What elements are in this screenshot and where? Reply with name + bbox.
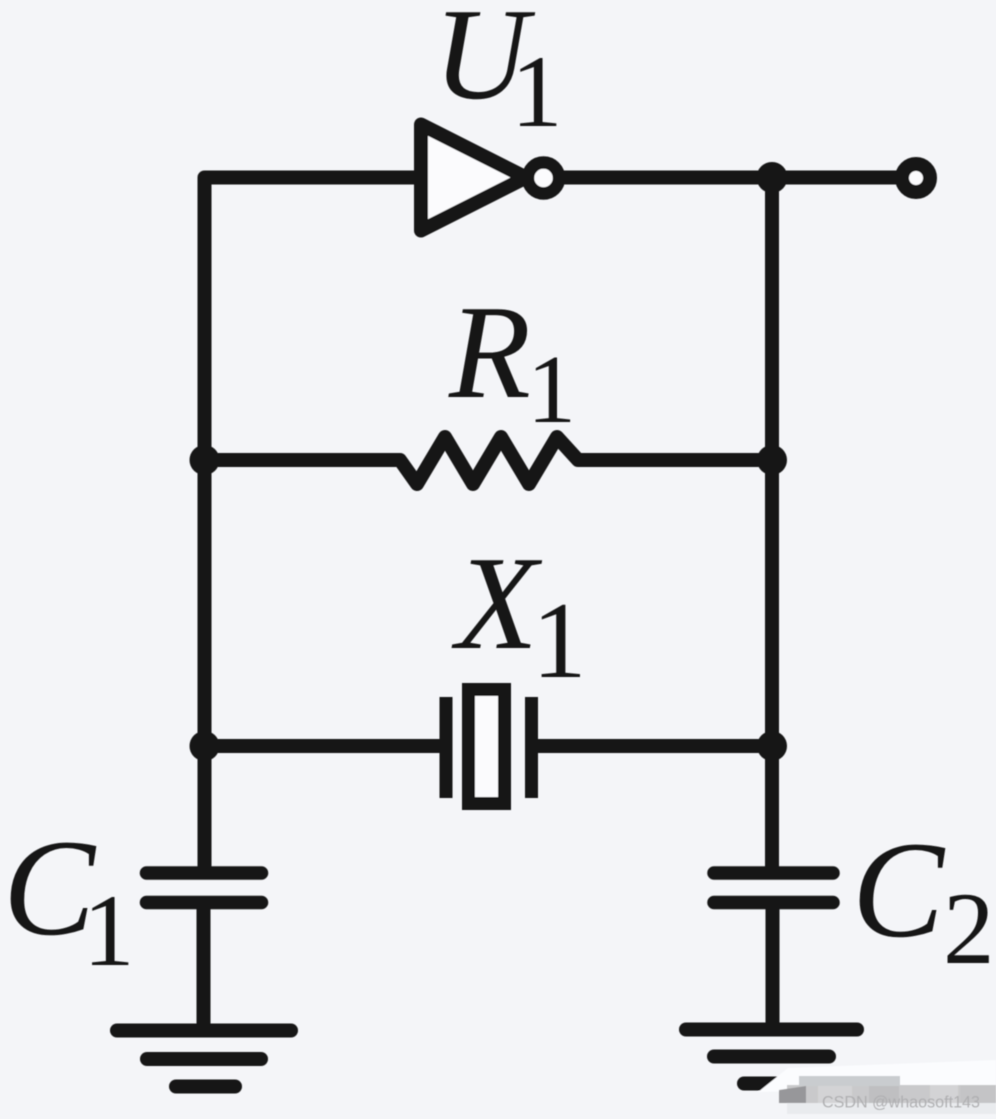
watermark text: [822, 1093, 980, 1112]
node: R row left junction: [190, 445, 220, 475]
capacitor C1: top plate: [147, 866, 262, 880]
resistor R1 with row wire: [205, 437, 773, 484]
ground (right) bar 1: [686, 1023, 857, 1037]
wire: crystal row right: [538, 739, 772, 753]
capacitor C2: top plate: [714, 866, 833, 880]
ground (left) bar 1: [117, 1024, 291, 1038]
watermark smudge: white patch: [758, 1060, 996, 1092]
node: R row right junction: [757, 445, 787, 475]
wire: crystal row left: [205, 739, 441, 753]
node: X row right junction: [757, 731, 787, 761]
output terminal: [902, 164, 930, 192]
capacitor C1: bottom plate: [147, 896, 262, 910]
svg-text:2: 2: [943, 872, 995, 986]
inverter bubble: [528, 163, 559, 194]
svg-text:1: 1: [532, 580, 587, 701]
ground (right) bar 2: [714, 1050, 829, 1064]
svg-text:X: X: [451, 529, 543, 677]
crystal X1: left plate: [440, 697, 453, 798]
svg-text:1: 1: [511, 35, 563, 149]
svg-text:1: 1: [527, 336, 576, 444]
crystal X1: right plate: [525, 697, 538, 798]
label R1: [448, 278, 576, 444]
ground (left) bar 3: [176, 1080, 235, 1094]
capacitor C2: bottom plate: [714, 896, 833, 910]
svg-text:CSDN @whaosoft143: CSDN @whaosoft143: [822, 1093, 980, 1112]
label U1: [434, 0, 563, 149]
watermark smudge: dark blob: [779, 1086, 806, 1103]
crystal X1: body box: [469, 690, 505, 804]
wire: C1 to ground: [197, 902, 211, 1030]
wire: inverter output to terminal: [560, 171, 902, 185]
ground (left) bar 2: [147, 1052, 261, 1066]
wire: left rail and top rail to inverter input: [205, 178, 419, 875]
svg-text:R: R: [448, 278, 531, 426]
ground (right) bar 3: [744, 1077, 790, 1091]
label C2: [852, 813, 995, 986]
label C1: [3, 811, 135, 988]
watermark smudge: gray band: [787, 1076, 996, 1114]
node: X row left junction: [190, 731, 220, 761]
label X1: [451, 529, 587, 701]
wire: C2 to ground: [766, 902, 780, 1029]
svg-text:C: C: [852, 813, 946, 966]
wire: right rail: [765, 178, 779, 875]
svg-text:1: 1: [83, 874, 135, 988]
op-amp U1 (inverter triangle): [421, 125, 526, 231]
node: output junction: [757, 162, 788, 193]
